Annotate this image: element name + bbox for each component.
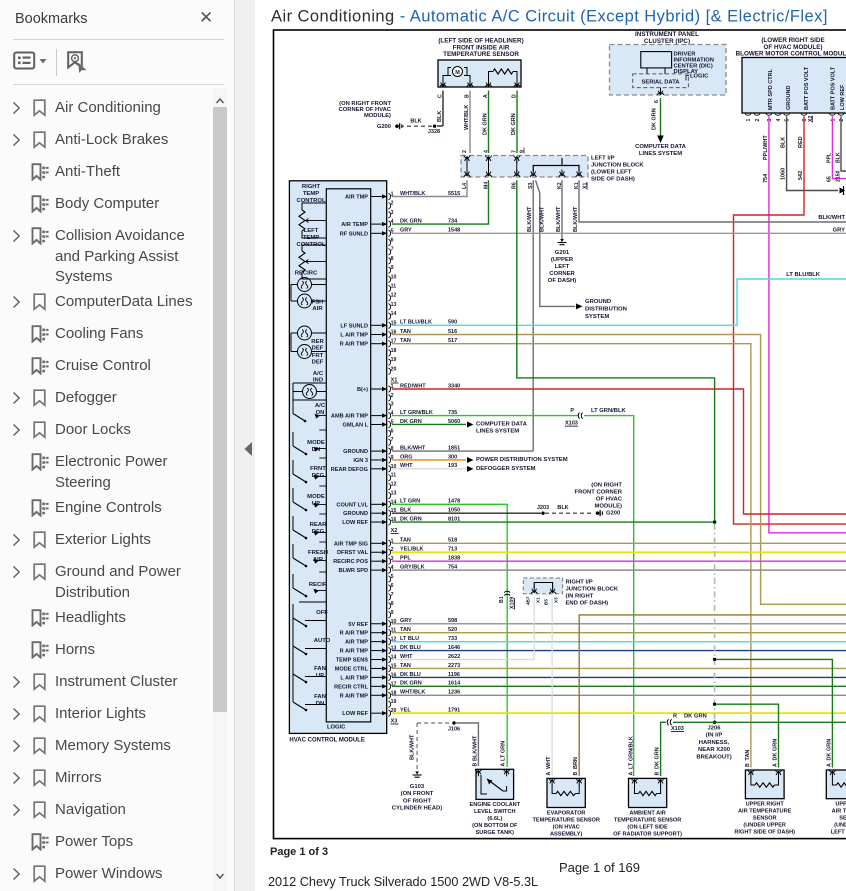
svg-text:TAN: TAN — [400, 627, 411, 633]
svg-text:DK GRN: DK GRN — [400, 681, 422, 687]
svg-text:SERIAL DATA: SERIAL DATA — [641, 80, 680, 86]
svg-text:7: 7 — [391, 592, 394, 598]
svg-text:SIDE OF DASH): SIDE OF DASH) — [591, 177, 635, 183]
svg-text:TAN: TAN — [400, 329, 411, 335]
HVAC connector X2 pin 19 — [388, 699, 396, 707]
wire BLK/WHT from K1 to right edge — [573, 180, 846, 232]
svg-text:12: 12 — [391, 482, 397, 488]
ground G103 — [392, 772, 442, 812]
upper left air temperature sensor resistor — [832, 776, 846, 787]
HVAC connector pin 3 (conn A) — [388, 210, 393, 218]
svg-text:2: 2 — [391, 393, 394, 399]
HVAC connector pin 10 (conn A) — [388, 274, 396, 282]
svg-text:CYLINDER HEAD): CYLINDER HEAD) — [392, 806, 442, 812]
RECIRC label — [295, 271, 318, 277]
svg-text:SEN: SEN — [839, 816, 846, 822]
HVAC connector X1 pin 11 — [388, 473, 396, 481]
HVAC connector X2 pin 9 — [388, 610, 393, 618]
wire BLK/WHT from S3 to HVAC pin 8 — [527, 180, 533, 451]
wire DK GRN label at upper left sensor pin A — [826, 739, 832, 767]
svg-text:2: 2 — [462, 150, 468, 153]
left I/P junction block dashed box — [461, 156, 588, 178]
engine coolant level switch S12 blade — [481, 775, 507, 794]
wire DK BLU 1646 HVAC X2 pin 13 to right edge — [392, 645, 846, 651]
svg-text:(ON LEFT SIDE: (ON LEFT SIDE — [627, 825, 668, 831]
FAN UP switch S10 — [293, 646, 326, 683]
wire WHT evaporator pin A to right I/P junction block — [551, 598, 553, 777]
svg-text:18: 18 — [391, 348, 397, 354]
blower motor control module U3 box — [742, 58, 846, 114]
sensor pin B — [465, 81, 474, 99]
svg-text:J328: J328 — [428, 129, 440, 135]
HVAC connector X2 pin 14 — [336, 655, 397, 664]
svg-text:65: 65 — [826, 176, 832, 182]
a/c indicator lamp DS5 — [293, 383, 326, 400]
wire LT BLU/BLK 590 HVAC pin 15 to right edge — [392, 272, 846, 326]
logic label (HVAC) — [327, 725, 346, 731]
svg-text:A: A — [826, 763, 832, 767]
svg-text:12: 12 — [391, 293, 397, 299]
svg-text:BREAKOUT): BREAKOUT) — [696, 754, 731, 760]
svg-text:RED: RED — [798, 136, 804, 148]
scrollbar — [213, 88, 227, 891]
svg-text:9: 9 — [391, 265, 394, 271]
blower module pin 2 — [754, 113, 761, 122]
blower module pin label BATT POS VOLT — [804, 66, 810, 110]
svg-text:517: 517 — [448, 338, 457, 344]
svg-text:BLK: BLK — [400, 508, 411, 514]
instrument panel cluster U2 dashed box — [610, 45, 727, 96]
svg-text:RECIR: RECIR — [309, 582, 328, 588]
svg-text:2: 2 — [839, 119, 845, 122]
wire LT GRN/BLK label at ambient pin A — [629, 736, 635, 775]
svg-text:AIR TEMP: AIR TEMP — [341, 222, 368, 228]
wire DK GRN 1614 HVAC X2 pin 17 to right edge — [392, 681, 846, 687]
upper right air temperature sensor label — [734, 802, 795, 836]
blower module connector X2 label — [808, 116, 814, 123]
HVAC connector X1 pin 7 — [388, 437, 393, 445]
MODE DN switch S2 — [293, 430, 326, 455]
svg-text:10: 10 — [391, 274, 397, 280]
svg-text:DFG: DFG — [312, 529, 325, 535]
HVAC connector X1 pin 16 — [342, 517, 396, 526]
wire LT GRN 1478 HVAC X1 pin 14 to coolant switch — [392, 499, 507, 767]
wire TAN label at upper right sensor pin B — [745, 750, 751, 767]
svg-text:UPPER RIGHT: UPPER RIGHT — [746, 802, 785, 808]
svg-text:POWER DISTRIBUTION SYSTEM: POWER DISTRIBUTION SYSTEM — [476, 457, 568, 463]
svg-text:AIR TMP: AIR TMP — [345, 640, 368, 646]
footer vehicle title — [268, 875, 538, 889]
HVAC connector X2 pin 18 — [340, 690, 397, 699]
defogger system reference — [476, 466, 536, 472]
wire DK GRN from IPC pin 6 — [652, 98, 664, 143]
evaporator temperature sensor label — [533, 811, 600, 838]
svg-text:R AIR TMP: R AIR TMP — [340, 693, 369, 699]
blower module conn2 pin 1 — [829, 113, 836, 122]
svg-text:TEMPERATURE SENSOR: TEMPERATURE SENSOR — [614, 818, 681, 824]
svg-text:BLK/WHT: BLK/WHT — [556, 206, 562, 232]
svg-text:WHT/BLK: WHT/BLK — [464, 105, 470, 130]
svg-text:734: 734 — [448, 219, 458, 225]
svg-text:P: P — [570, 408, 574, 414]
svg-text:X3: X3 — [554, 597, 559, 603]
HVAC connector X1 pin 8 — [343, 446, 393, 455]
junction node rail/upper-right sensor branch — [713, 703, 716, 706]
svg-text:2: 2 — [755, 119, 761, 122]
svg-text:(ON FRONT: (ON FRONT — [401, 791, 434, 797]
HVAC connector pin 11 (conn A) — [388, 284, 396, 292]
svg-text:M: M — [455, 70, 460, 76]
ambient air temperature sensor label — [613, 811, 682, 838]
svg-text:(UNDER: (UNDER — [834, 823, 846, 829]
svg-text:BLK: BLK — [437, 111, 443, 122]
svg-text:L AIR TMP: L AIR TMP — [340, 333, 368, 339]
FSH AIR label — [312, 300, 324, 313]
svg-text:RER: RER — [311, 339, 324, 345]
wire ORG 300 HVAC X1 pin 9 to power distribution — [392, 454, 474, 463]
svg-text:3: 3 — [391, 210, 394, 216]
left temp control potentiometer R3 — [299, 245, 326, 279]
svg-text:AIR TMP: AIR TMP — [345, 195, 368, 201]
ground G200 (top) — [339, 101, 402, 130]
wire BLK from pin C to J328 — [437, 91, 443, 127]
svg-text:(IN RIGHT: (IN RIGHT — [566, 594, 594, 600]
svg-text:DK GRN: DK GRN — [655, 747, 661, 769]
HVAC control module label — [289, 738, 364, 744]
svg-text:RECIR CTRL: RECIR CTRL — [334, 684, 368, 690]
HVAC connector X2 pin 12 — [345, 637, 396, 646]
svg-text:RECIRC POS: RECIRC POS — [333, 559, 368, 565]
svg-text:TEMP: TEMP — [303, 191, 319, 197]
svg-text:A: A — [546, 772, 552, 776]
HVAC connector pin 8 (conn A) — [388, 256, 393, 264]
svg-text:B(+): B(+) — [357, 387, 368, 393]
svg-text:713: 713 — [448, 547, 457, 553]
svg-text:GRY: GRY — [400, 618, 412, 624]
svg-text:MODE: MODE — [307, 440, 325, 446]
svg-text:A: A — [773, 763, 779, 767]
wire WHT/BLK pin B to junction block pin 2 — [464, 91, 470, 154]
HVAC connector X2 pin 13 — [340, 646, 397, 655]
svg-text:1614: 1614 — [448, 681, 461, 687]
wire TAN 518 HVAC X2 pin 1 to right edge — [392, 538, 846, 544]
wire RED/WHT 3340 HVAC X1 pin 1 to right edge — [392, 383, 846, 514]
HVAC connector pin 13 (conn A) — [388, 302, 396, 310]
svg-text:PPL/WHT: PPL/WHT — [763, 135, 769, 160]
HVAC connector X1 pin 5 — [343, 419, 394, 428]
blower module pin label GROUND — [786, 86, 792, 110]
svg-text:6: 6 — [391, 583, 394, 589]
blower module pin label MTR SPD CTRL — [768, 68, 774, 110]
motor M1 symbol — [443, 67, 470, 84]
svg-text:DK GRN: DK GRN — [400, 516, 422, 522]
wire WHT label at evaporator pin A — [546, 756, 552, 776]
svg-text:1060: 1060 — [781, 168, 787, 180]
wire YEL 1791 HVAC X2 pin 20 to right edge — [392, 708, 846, 714]
svg-text:ENGINE COOLANT: ENGINE COOLANT — [469, 802, 520, 808]
engine coolant level switch label — [469, 802, 520, 836]
svg-text:FRT: FRT — [312, 353, 324, 359]
wire GRY 1548 HVAC pin 5 to right edge — [392, 228, 846, 234]
svg-text:DK GRN: DK GRN — [773, 739, 779, 761]
svg-text:6: 6 — [654, 100, 660, 103]
OFF label — [316, 610, 328, 616]
HVAC connector pin 17 (conn A) — [340, 339, 397, 348]
svg-text:J206: J206 — [707, 726, 721, 732]
junction node rail/upper-left sensor branch — [713, 658, 716, 661]
wire DK GRN from R6 down and right to rail — [517, 180, 715, 522]
svg-text:BLK/WHT: BLK/WHT — [540, 206, 546, 232]
FRNT DFG switch S3 — [293, 458, 326, 483]
svg-text:7: 7 — [391, 247, 394, 253]
bookmarks sidebar panel — [0, 0, 234, 891]
blower module pin 6 — [801, 113, 808, 122]
HVAC connector X2 pin 6 — [388, 583, 393, 591]
svg-text:Page 1 of 3: Page 1 of 3 — [270, 846, 328, 858]
svg-text:RF SUNLD: RF SUNLD — [340, 231, 368, 237]
svg-text:FRNT: FRNT — [310, 466, 326, 472]
blower module conn2 pin 2 — [838, 113, 845, 122]
svg-text:X1: X1 — [583, 183, 589, 189]
svg-text:3: 3 — [767, 119, 773, 122]
svg-text:DK GRN: DK GRN — [652, 108, 658, 130]
svg-text:8: 8 — [391, 601, 394, 607]
svg-text:2273: 2273 — [448, 663, 460, 669]
evaporator temperature sensor resistor — [552, 784, 579, 795]
inline connector X103 (R) — [667, 714, 707, 733]
svg-text:YEL/BLK: YEL/BLK — [400, 547, 424, 553]
svg-text:R: R — [673, 714, 677, 720]
AUTO switch S9 — [293, 618, 331, 655]
wire LT BLU 733 HVAC X2 pin 12 to right edge — [392, 636, 846, 642]
svg-text:GMLAN L: GMLAN L — [343, 422, 369, 428]
svg-text:COMPUTER DATA: COMPUTER DATA — [635, 144, 687, 150]
svg-text:J203: J203 — [537, 505, 549, 511]
svg-text:LEFT: LEFT — [304, 228, 319, 234]
svg-text:MODULE): MODULE) — [364, 113, 391, 119]
wire DK GRN X103 to right edge through J206 — [673, 721, 846, 723]
wire DK BLU 1196 HVAC X2 pin 16 to right edge — [392, 672, 846, 678]
svg-text:1646: 1646 — [448, 645, 460, 651]
svg-text:BLK: BLK — [836, 152, 842, 163]
footer page 1 of 3 — [270, 846, 328, 858]
HVAC connector pin 19 (conn A) — [388, 357, 396, 365]
wire WHT 2622 HVAC X2 pin 14 to right I/P junction block — [392, 598, 534, 660]
svg-text:(UPPER: (UPPER — [551, 257, 574, 263]
recirc indicator lamp DS1 — [291, 278, 326, 302]
junction J106 — [448, 721, 460, 732]
svg-text:6: 6 — [391, 428, 394, 434]
wire DK GRN label at upper right sensor pin A — [773, 739, 779, 767]
harness rail (dash-dot) to J206 — [714, 524, 716, 719]
svg-text:TAN: TAN — [745, 750, 751, 761]
svg-text:YEL: YEL — [400, 708, 411, 714]
HVAC connector pin 5 (conn A) — [340, 228, 394, 237]
wire WHT/BLK 1236 HVAC X2 pin 18 to right edge — [392, 690, 846, 696]
svg-text:DEFOGGER SYSTEM: DEFOGGER SYSTEM — [476, 466, 536, 472]
HVAC control module inner logic box — [326, 189, 370, 722]
wire BLK 2150 from blower conn2 pin 2 — [836, 116, 846, 182]
svg-text:LOW REF: LOW REF — [342, 711, 368, 717]
HVAC connector X2 pin 11 — [340, 628, 397, 637]
wire TAN 517 HVAC pin 17 to upper right sensor — [392, 338, 751, 767]
blower module pin label LOW REF — [840, 84, 846, 110]
wire BLK 1050 HVAC X1 pin 15 to J203 — [392, 508, 541, 514]
svg-text:LT BLU/BLK: LT BLU/BLK — [400, 320, 432, 326]
svg-text:LT BLU/BLK: LT BLU/BLK — [786, 272, 821, 278]
HVAC control module outer box — [289, 181, 386, 734]
svg-text:754: 754 — [448, 565, 458, 571]
svg-text:COUNT LVL: COUNT LVL — [336, 502, 368, 508]
upper left air temperature sensor RT4 box — [826, 770, 846, 799]
svg-text:7: 7 — [391, 437, 394, 443]
wire PPL/WHT 754 from blower pin 3 — [763, 116, 846, 532]
blower module pin 5 — [783, 113, 790, 122]
wire TAN 2273 HVAC X2 pin 15 to right edge — [392, 663, 846, 669]
wire DK GRN ambient pin B to X103 — [655, 722, 666, 776]
svg-text:WHT: WHT — [546, 756, 552, 769]
svg-text:14: 14 — [391, 311, 397, 317]
svg-text:1236: 1236 — [448, 690, 460, 696]
junction block top pin 9 mark — [520, 148, 526, 154]
FAN DN switch S11 — [293, 674, 326, 711]
svg-text:A/C: A/C — [315, 403, 326, 409]
svg-text:TEMP: TEMP — [303, 235, 319, 241]
svg-text:DK GRN: DK GRN — [511, 113, 517, 135]
wire LT GRN/BLK from X103 to ambient sensor pin A — [584, 416, 634, 776]
svg-text:JUNCTION BLOCK: JUNCTION BLOCK — [566, 587, 619, 593]
svg-text:Air Conditioning - Automatic A: Air Conditioning - Automatic A/C Circuit… — [271, 8, 828, 26]
logic label (IPC) — [686, 74, 709, 81]
svg-text:LEFT: LEFT — [555, 264, 570, 270]
svg-text:4: 4 — [483, 150, 489, 153]
svg-text:LT GRN/BLK: LT GRN/BLK — [591, 408, 626, 414]
svg-text:598: 598 — [448, 618, 457, 624]
HVAC connector pin 12 (conn A) — [388, 293, 396, 301]
svg-text:1791: 1791 — [448, 708, 460, 714]
svg-text:X2: X2 — [808, 116, 814, 122]
svg-text:(ON HVAC: (ON HVAC — [553, 825, 580, 831]
svg-text:L AIR TMP: L AIR TMP — [340, 675, 368, 681]
svg-text:DK BLU: DK BLU — [400, 645, 421, 651]
right I/P junction block bracket — [531, 583, 556, 594]
FRESH AIR switch S6 — [293, 542, 328, 567]
svg-text:UP: UP — [316, 673, 324, 679]
svg-text:LOW REF: LOW REF — [840, 84, 846, 110]
svg-text:RIGHT: RIGHT — [302, 184, 321, 190]
DIC display label — [674, 52, 714, 76]
HVAC connector X2 pin 4 — [338, 565, 393, 574]
svg-text:JUNCTION BLOCK: JUNCTION BLOCK — [591, 163, 644, 169]
rear def indicator lamp DS3 — [291, 326, 326, 352]
ground G200 (right) — [575, 483, 623, 517]
inline connector X109 (B1) — [499, 591, 516, 609]
HVAC connector X1 pin 12 — [388, 482, 396, 490]
svg-text:DK BLU: DK BLU — [400, 672, 421, 678]
svg-text:LT GRN/BLK: LT GRN/BLK — [629, 736, 635, 769]
svg-text:MODULE): MODULE) — [595, 504, 623, 510]
svg-text:1: 1 — [830, 119, 836, 122]
svg-text:OF RADIATOR SUPPORT): OF RADIATOR SUPPORT) — [613, 832, 682, 838]
svg-text:UPPER: UPPER — [835, 802, 846, 808]
svg-text:OFF: OFF — [316, 610, 328, 616]
upper right air temperature sensor RT3 box — [745, 770, 784, 799]
svg-text:B1: B1 — [499, 596, 505, 603]
junction block pass-through pin 4/M4 — [483, 150, 491, 189]
wire TAN 516 HVAC pin 16 to right edge — [392, 329, 846, 604]
svg-text:OF HVAC: OF HVAC — [596, 497, 623, 503]
svg-text:2012 Chevy Truck Silverado 150: 2012 Chevy Truck Silverado 1500 2WD V8-5… — [268, 875, 538, 889]
junction J206 — [696, 721, 731, 761]
wire BLK dashed J203 to G200 — [545, 505, 594, 513]
svg-text:CORNER: CORNER — [549, 271, 575, 277]
svg-text:4: 4 — [776, 119, 782, 122]
blower module pin 4 — [775, 113, 782, 122]
right I/P junction block dashed box — [523, 578, 562, 594]
svg-text:RIGHT I/P: RIGHT I/P — [566, 580, 593, 586]
wire GRY 598 HVAC X2 pin 10 to right edge — [392, 618, 846, 624]
svg-text:GROUND: GROUND — [343, 511, 368, 517]
front inside air temperature sensor label — [438, 38, 523, 59]
svg-text:19: 19 — [391, 357, 397, 363]
wire DK GRN 8101 HVAC X1 pin 16 to rail junction — [392, 516, 715, 522]
HVAC connector X2 pin 20 — [342, 708, 396, 717]
wire TAN 520 HVAC X2 pin 11 to right edge — [392, 627, 846, 633]
svg-text:A: A — [501, 763, 507, 767]
HVAC connector pin 14 (conn A) — [388, 311, 396, 319]
HVAC connector pin 1 (conn A) — [345, 192, 394, 201]
A/C ON switch S1 — [293, 400, 326, 422]
svg-text:LF SUNLD: LF SUNLD — [340, 323, 368, 329]
ground symbol (blower BLK) — [840, 186, 846, 195]
svg-text:1196: 1196 — [448, 672, 460, 678]
svg-text:754: 754 — [763, 173, 769, 183]
left I/P junction block label — [591, 156, 644, 183]
HVAC connector pin 4 (conn A) — [341, 219, 393, 228]
OFF switch S8 — [293, 602, 326, 627]
wire BLK/WHT 1851 HVAC X1 pin 8 to S3 — [392, 445, 533, 451]
FRT DEF label — [312, 353, 324, 366]
svg-text:20: 20 — [391, 366, 397, 372]
svg-text:WHT: WHT — [400, 654, 413, 660]
junction block pass-through pin 7/R6 — [512, 150, 520, 189]
svg-text:AIR TMP SIG: AIR TMP SIG — [334, 541, 368, 547]
svg-text:LT GRN: LT GRN — [501, 741, 507, 761]
blower module pin label BATT POS VOLT — [831, 66, 837, 110]
RECIR switch S7 — [293, 572, 328, 597]
svg-text:4B7: 4B7 — [526, 596, 531, 605]
right I/P junction block label — [566, 580, 619, 607]
computer data lines system reference (HVAC) — [476, 421, 528, 434]
wire BLK/WHT from K2 to G201 — [556, 180, 562, 239]
blower motor control module label — [736, 37, 846, 58]
sensor pin D — [512, 81, 521, 99]
svg-text:SYSTEM: SYSTEM — [585, 314, 609, 320]
diagram border frame — [274, 30, 846, 839]
svg-text:Page 1 of 169: Page 1 of 169 — [559, 860, 640, 875]
ambient air temperature sensor RT2 box — [629, 778, 667, 807]
svg-text:1851: 1851 — [448, 445, 460, 451]
svg-text:2622: 2622 — [448, 654, 460, 660]
HVAC connector X2 pin 5 — [388, 574, 393, 582]
HVAC connector X2 pin 16 — [340, 672, 396, 681]
wire GRY/BLK 754 HVAC X2 pin 4 to right edge — [392, 565, 846, 571]
svg-text:G200: G200 — [377, 124, 391, 130]
svg-text:2150: 2150 — [836, 170, 842, 182]
svg-text:AIR: AIR — [312, 306, 323, 312]
svg-text:13: 13 — [391, 490, 397, 496]
svg-text:TAN: TAN — [400, 663, 411, 669]
